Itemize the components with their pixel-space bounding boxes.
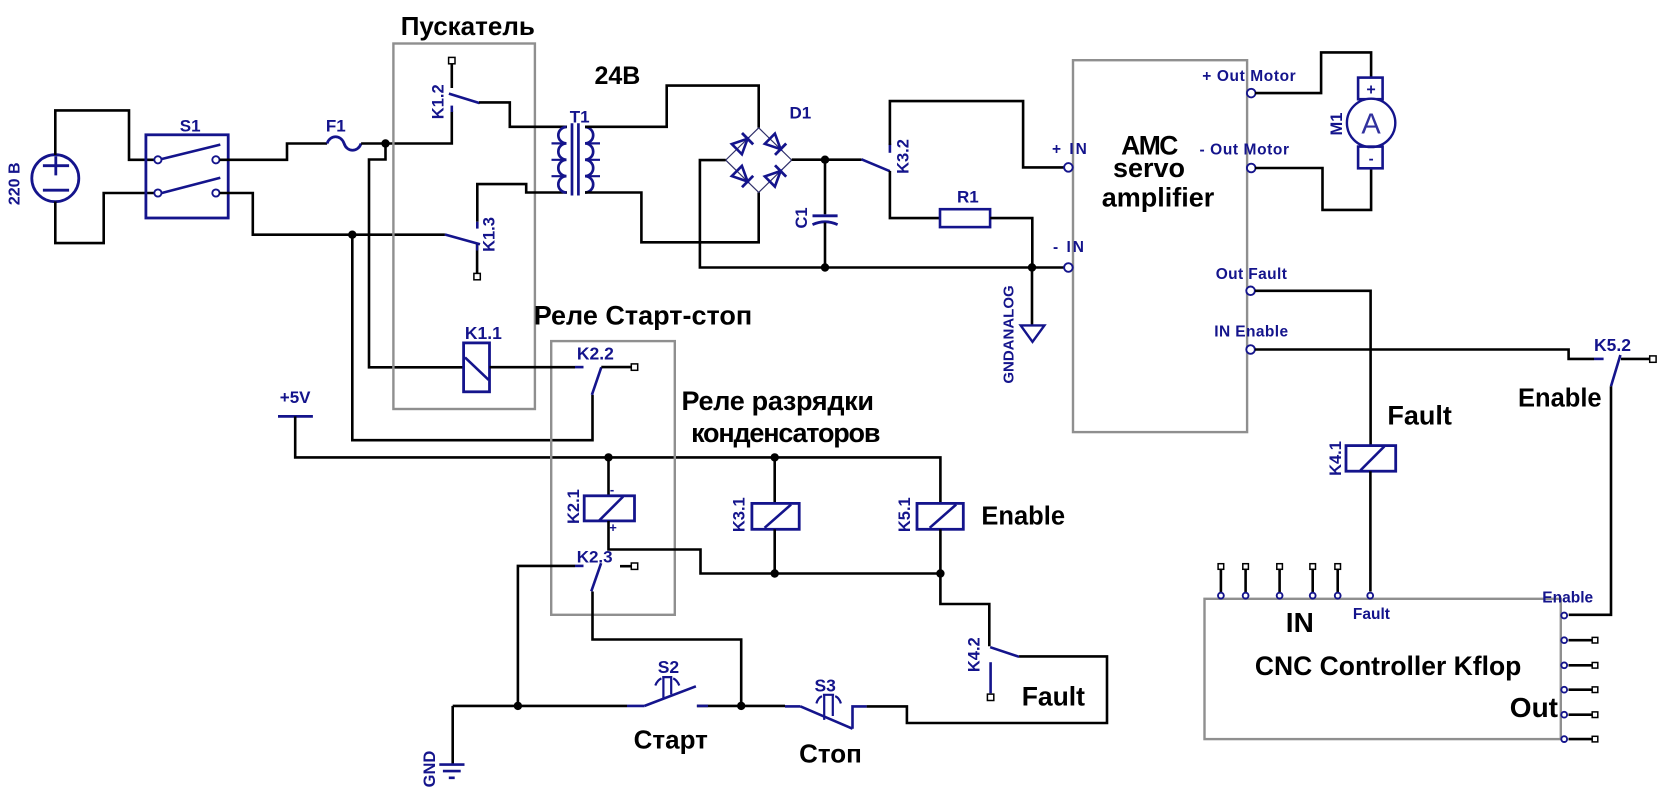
contact K3.2 fixed tip [889, 144, 892, 153]
switch S1 contact lower [162, 178, 221, 193]
amplifier U1 AMC box [1073, 60, 1247, 432]
contact K2.3 fixed tip [575, 565, 584, 568]
label F1 [326, 117, 346, 136]
pin +IN [1064, 163, 1073, 172]
wire K5.2 to terminal pad [1621, 358, 1650, 361]
contact K3.2 arm [862, 159, 890, 171]
wire K2.3 left riser [518, 566, 575, 706]
pin label + IN [1052, 141, 1089, 158]
wire bridge negative to bottom rail [700, 160, 1064, 267]
svg-text:IN Enable: IN Enable [1214, 324, 1288, 341]
junction K2.3 riser [514, 702, 522, 710]
wire -Out Motor to M1 [1255, 168, 1371, 210]
button S2 contact [627, 686, 708, 706]
label M1 [1328, 113, 1346, 136]
contact K1.3 terminal pad [474, 273, 480, 279]
diode D1 lower-left [732, 166, 753, 187]
svg-text:-: - [610, 482, 614, 497]
contact K2.2 arm [592, 367, 601, 395]
svg-text:K4.1: K4.1 [1327, 441, 1345, 476]
wire bottom rail left [453, 705, 627, 708]
junction bottom rail K3.1 [771, 569, 779, 577]
label K4.2 [965, 637, 983, 672]
switch S1 contact upper [162, 145, 221, 159]
wire K2.1 to bottom relay rail [609, 521, 941, 574]
label 220 В [7, 162, 24, 205]
controller top pins [1218, 593, 1373, 599]
relay K2.1 polarity marks [609, 482, 617, 535]
contact K1.2 top lead [450, 64, 453, 88]
contact K4.2 terminal pad [987, 694, 993, 700]
label amplifier [1102, 183, 1215, 213]
pin IN Enable [1246, 345, 1255, 354]
svg-text:amplifier: amplifier [1102, 183, 1215, 213]
label Реле разрядки [682, 386, 874, 416]
label K3.1 [731, 497, 749, 532]
contact K2.3 arm [591, 563, 601, 591]
label Fault small [1353, 606, 1390, 623]
svg-text:CNC Controller Kflop: CNC Controller Kflop [1255, 651, 1521, 681]
label K2.3 [577, 548, 613, 567]
button S3 contact [785, 706, 867, 728]
svg-text:GNDANALOG: GNDANALOG [1000, 285, 1017, 383]
switch S1 box [146, 135, 228, 218]
wire K1.2 to transformer primary top [479, 102, 567, 126]
wire fuse to contact K1.2 [361, 111, 452, 144]
transformer T1 primary taps [552, 143, 563, 176]
label 24В [595, 62, 641, 90]
wire K5.2 down to Kflop Enable [1569, 386, 1611, 615]
label K4.1 [1327, 441, 1345, 476]
svg-text:Fault: Fault [1353, 606, 1390, 623]
label Стоп [799, 738, 862, 768]
wire bridge positive to K3.2 [792, 158, 862, 161]
label CNC Controller Kflop [1255, 651, 1521, 681]
label Out [1510, 692, 1558, 723]
wire K4.2 fault loop [867, 656, 1107, 723]
wire K3.2 to plus IN [890, 101, 1064, 167]
controller right pins [1561, 613, 1567, 742]
wire to analog ground [1031, 268, 1034, 326]
starter group box (Пускатель) [393, 44, 535, 410]
label K2.2 [577, 344, 614, 364]
contact K2.2 terminal pad [631, 364, 637, 370]
svg-text:D1: D1 [790, 104, 812, 123]
button S2 plunger [655, 677, 679, 698]
svg-text:T1: T1 [570, 108, 590, 127]
diode D1 upper-left [732, 133, 753, 154]
wire K4.1 to Kflop Fault pin [1369, 471, 1372, 591]
svg-text:конденсаторов: конденсаторов [691, 418, 880, 448]
contact K2.2 fixed tip [575, 366, 584, 369]
svg-text:K1.3: K1.3 [481, 217, 499, 252]
diode D1 upper-right [765, 134, 786, 155]
wire R1 to minus IN rail [990, 218, 1032, 267]
bridge rectifier D1 diamond [726, 128, 792, 193]
wire rail to K2.1 [607, 457, 610, 495]
svg-text:K1.1: K1.1 [465, 323, 502, 343]
wire S1 upper to fuse F1 [220, 144, 328, 160]
label K5.1 [896, 497, 914, 532]
label AMC [1121, 131, 1178, 161]
svg-text:servo: servo [1113, 153, 1185, 183]
pin -Out Motor [1247, 164, 1256, 173]
svg-text:Out: Out [1510, 692, 1558, 723]
svg-text:K3.2: K3.2 [895, 139, 913, 174]
label K2.1 [565, 489, 583, 524]
contact K4.2 arm [990, 647, 1019, 657]
label Enable small [1542, 590, 1593, 607]
ground GNDANALOG [1021, 325, 1045, 341]
wire bottom rail to contact K4.2 [940, 574, 989, 647]
wire junction down to contact K2.2 arm [352, 235, 592, 441]
contact K1.3 arm [445, 235, 480, 245]
wire transformer secondary top to bridge D1 [585, 86, 759, 128]
transformer T1 core [572, 123, 578, 195]
svg-text:+: + [1366, 82, 1375, 99]
svg-text:A: A [1361, 109, 1381, 141]
relay coil K3.1 [752, 503, 799, 529]
label S2 [658, 657, 680, 677]
junction C1 bottom [821, 263, 829, 271]
contact K2.3 terminal pad [631, 563, 637, 569]
svg-text:Старт: Старт [634, 724, 709, 754]
relay coil K1.1 [464, 343, 490, 392]
junction on lower wire [348, 231, 356, 239]
wire K5.1 to bottom rail [939, 529, 942, 573]
wire junction down to relay K1.1 [369, 144, 464, 368]
svg-text:S2: S2 [658, 657, 680, 677]
svg-text:Реле разрядки: Реле разрядки [682, 386, 874, 416]
svg-text:+ IN: + IN [1052, 141, 1089, 158]
transformer T1 primary winding [558, 127, 566, 193]
wire rail to K3.1 [773, 457, 776, 503]
wire K1.1 to contact K2.2 [490, 366, 576, 369]
motor M1 body [1347, 99, 1395, 147]
contact K4.2 fixed lead [989, 662, 992, 693]
wire transformer secondary bottom to bridge D1 [585, 192, 759, 242]
svg-text:220 В: 220 В [7, 162, 24, 205]
label конденсаторов [691, 418, 880, 448]
junction at fuse output [381, 139, 389, 147]
wire C1 bottom lead [824, 223, 827, 268]
label servo [1113, 153, 1185, 183]
label S1 [180, 117, 201, 136]
svg-text:K2.2: K2.2 [577, 344, 614, 364]
contact K1.3 fixed tip [476, 222, 479, 229]
svg-text:Fault: Fault [1022, 682, 1085, 712]
svg-text:24В: 24В [595, 62, 641, 90]
label IN [1286, 607, 1314, 638]
junction rail K2.1 [604, 453, 612, 461]
junction minus IN node [1028, 263, 1036, 271]
wire source bottom to S1 [55, 193, 156, 243]
svg-text:S1: S1 [180, 117, 201, 136]
controller Kflop box [1205, 599, 1561, 739]
svg-text:+5V: +5V [280, 388, 311, 407]
label GNDANALOG [1000, 285, 1017, 383]
pin Out Fault [1246, 287, 1255, 296]
svg-text:K5.2: K5.2 [1594, 335, 1631, 355]
junction bottom rail K5.1 [936, 569, 944, 577]
wire K2.3 arm to S2 rail [593, 592, 742, 706]
motor M1 minus terminal [1358, 147, 1383, 169]
diode D1 lower-right [765, 165, 786, 186]
label K1.1 [465, 323, 502, 343]
label S3 [815, 676, 837, 696]
svg-text:K2.1: K2.1 [565, 489, 583, 524]
pin label IN Enable [1214, 324, 1288, 341]
label Пускатель [401, 11, 535, 41]
voltage source 220V [32, 155, 79, 202]
label Enable big middle [981, 503, 1065, 531]
transformer T1 secondary winding [585, 127, 593, 193]
contact K1.3 bottom lead [476, 244, 479, 273]
svg-text:K4.2: K4.2 [965, 637, 983, 672]
pin +Out Motor [1247, 89, 1256, 98]
contact K5.2 fixed tip [1594, 358, 1604, 361]
label Старт [634, 724, 709, 754]
controller Out stub terminals [1569, 637, 1598, 741]
svg-text:F1: F1 [326, 117, 346, 136]
svg-text:M1: M1 [1328, 113, 1346, 136]
wire S1 lower to contact K1.3 [220, 193, 445, 235]
svg-text:- IN: - IN [1053, 239, 1086, 256]
svg-text:Enable: Enable [981, 503, 1065, 531]
svg-text:Out Fault: Out Fault [1216, 266, 1288, 283]
button S3 plunger [816, 695, 841, 720]
label GND [421, 751, 439, 788]
pin -IN [1064, 263, 1073, 272]
junction rail K3.1 [771, 453, 779, 461]
svg-text:C1: C1 [793, 207, 811, 228]
label Fault big [1387, 401, 1452, 431]
pin label - IN [1053, 239, 1086, 256]
svg-text:Реле Старт-стоп: Реле Старт-стоп [534, 301, 752, 331]
wire K3.2 arm to R1 [890, 171, 940, 218]
label Fault loop [1022, 682, 1085, 712]
relay coil K4.1 [1346, 446, 1396, 472]
junction C1 top [821, 156, 829, 164]
svg-text:GND: GND [421, 751, 439, 788]
controller IN stub terminals [1218, 564, 1340, 593]
power +5V [278, 388, 313, 416]
wire source top to S1 [55, 110, 156, 159]
svg-text:K1.2: K1.2 [430, 84, 448, 119]
wire S2 to S3 rail [697, 705, 785, 708]
label K1.2 [430, 84, 448, 119]
svg-text:Пускатель: Пускатель [401, 11, 535, 41]
pin label - Out Motor [1200, 142, 1290, 159]
wire +Out Motor to M1 [1255, 52, 1371, 93]
svg-text:Enable: Enable [1542, 590, 1593, 607]
label R1 [957, 188, 979, 207]
svg-text:Fault: Fault [1387, 401, 1452, 431]
svg-text:Enable: Enable [1518, 385, 1602, 413]
svg-text:Стоп: Стоп [799, 738, 862, 768]
label K1.3 [481, 217, 499, 252]
relay coil K5.1 [917, 503, 963, 529]
wire K3.1 to bottom rail [773, 529, 776, 573]
fuse F1 [327, 137, 361, 151]
contact K5.2 terminal pad [1650, 356, 1656, 362]
motor M1 plus terminal [1358, 78, 1383, 100]
label Реле Старт-стоп [534, 301, 752, 331]
svg-text:K5.1: K5.1 [896, 497, 914, 532]
svg-text:S3: S3 [815, 676, 837, 696]
svg-text:K3.1: K3.1 [731, 497, 749, 532]
transformer T1 secondary taps [589, 143, 600, 176]
label C1 [793, 207, 811, 228]
label T1 [570, 108, 590, 127]
label D1 [790, 104, 812, 123]
switch S1 pins [154, 156, 219, 196]
svg-text:IN: IN [1286, 607, 1314, 638]
wire K2.2 to terminal pad [601, 366, 631, 369]
contact K1.2 terminal pad [449, 57, 455, 63]
relay coil K2.1 [584, 496, 634, 521]
svg-text:- Out Motor: - Out Motor [1200, 142, 1290, 159]
svg-text:-: - [1369, 151, 1374, 168]
label K5.2 [1594, 335, 1631, 355]
pin label + Out Motor [1202, 68, 1296, 85]
resistor R1 [940, 209, 990, 227]
wire K2.3 pad stub [620, 565, 631, 568]
capacitor C1 plates [813, 216, 838, 225]
wire C1 top lead [824, 160, 827, 215]
svg-text:K2.3: K2.3 [577, 548, 613, 567]
svg-text:+: + [609, 520, 617, 535]
junction S2 output [737, 702, 745, 710]
svg-text:+ Out Motor: + Out Motor [1202, 68, 1296, 85]
wire IN Enable to contact K5.2 [1255, 350, 1594, 359]
contact K1.2 arm [449, 94, 480, 104]
label Enable big right [1518, 385, 1602, 413]
contact K1.2 fixed tip [450, 106, 453, 112]
pin label Out Fault [1216, 266, 1288, 283]
svg-text:R1: R1 [957, 188, 979, 207]
wire rail to GND [451, 706, 454, 765]
contact K5.2 arm [1611, 355, 1620, 386]
wire +5V rail [295, 416, 940, 503]
ground GND [439, 765, 464, 778]
wire transformer primary bottom to K1.3 [477, 184, 567, 222]
wire Out Fault to relay K4.1 [1255, 291, 1371, 446]
relay group box (Реле Старт-стоп) [551, 341, 675, 615]
label K3.2 [895, 139, 913, 174]
